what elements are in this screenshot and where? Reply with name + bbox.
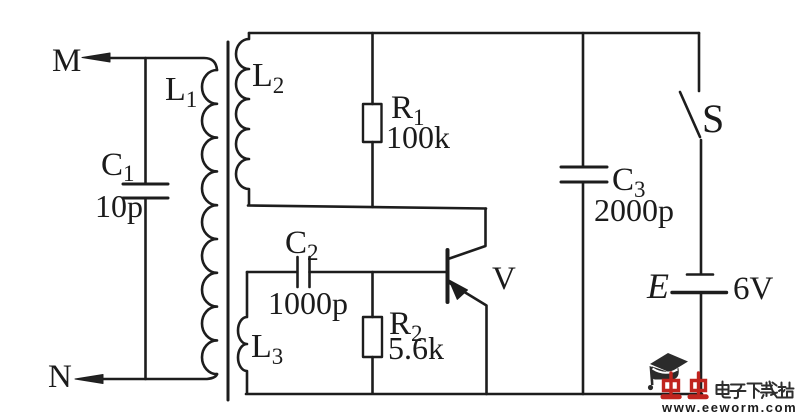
svg-text:2000p: 2000p bbox=[594, 192, 674, 228]
watermark text dianzi xiazaizhan bbox=[717, 382, 794, 399]
wire M lead bbox=[95, 58, 217, 70]
capacitor C2 left wire bbox=[247, 271, 297, 274]
transistor V base bar bbox=[446, 250, 450, 302]
watermark graduation cap bbox=[648, 353, 688, 390]
capacitor C1 bottom wire bbox=[144, 198, 147, 379]
wire N lead bbox=[88, 374, 217, 379]
svg-text:www.eeworm.com: www.eeworm.com bbox=[661, 400, 797, 413]
battery E short plate bbox=[687, 273, 713, 276]
inductor L3 bbox=[238, 272, 247, 393]
resistor R1 bottom wire bbox=[371, 142, 374, 207]
capacitor C2 plates bbox=[298, 257, 310, 287]
resistor R1 body bbox=[363, 104, 382, 142]
capacitor C3 plates bbox=[561, 167, 607, 182]
svg-text:100k: 100k bbox=[386, 119, 450, 155]
capacitor C1 plates bbox=[123, 184, 168, 198]
wire bottom rail bbox=[246, 393, 702, 396]
node M arrowhead bbox=[82, 53, 110, 62]
svg-text:5.6k: 5.6k bbox=[388, 330, 444, 366]
node N arrowhead bbox=[75, 375, 103, 384]
resistor R2 body bbox=[363, 317, 382, 357]
wire emitter lead bbox=[448, 282, 487, 394]
capacitor C3 top wire bbox=[582, 33, 585, 166]
svg-text:N: N bbox=[48, 359, 72, 395]
inductor L2 bbox=[236, 33, 249, 205]
watermark red text chong chong bbox=[663, 373, 707, 397]
switch S bottom wire bbox=[700, 140, 703, 273]
wire top rail bbox=[249, 32, 699, 35]
battery E bottom wire bbox=[700, 293, 703, 396]
capacitor C3 bottom wire bbox=[582, 182, 585, 394]
svg-text:E: E bbox=[646, 266, 669, 306]
svg-text:L1: L1 bbox=[165, 71, 197, 112]
wire collector lead bbox=[448, 209, 486, 260]
svg-text:L3: L3 bbox=[251, 328, 283, 369]
wire mid line from L2 to collector bbox=[248, 206, 486, 209]
svg-text:C2: C2 bbox=[285, 225, 319, 265]
svg-text:L2: L2 bbox=[252, 57, 284, 98]
resistor R2 top wire bbox=[371, 272, 374, 317]
svg-text:M: M bbox=[52, 43, 81, 79]
svg-text:C1: C1 bbox=[101, 147, 135, 186]
capacitor C1 top wire bbox=[144, 58, 147, 184]
svg-text:1000p: 1000p bbox=[268, 285, 348, 321]
svg-text:V: V bbox=[492, 261, 516, 297]
inductor L1 bbox=[202, 70, 217, 374]
svg-text:10p: 10p bbox=[95, 188, 143, 224]
switch S blade bbox=[680, 92, 700, 137]
battery E long plate bbox=[672, 291, 727, 294]
transistor V emitter arrowhead bbox=[449, 280, 468, 299]
svg-text:S: S bbox=[702, 96, 724, 141]
transformer core bbox=[227, 42, 230, 400]
resistor R1 top wire bbox=[371, 33, 374, 104]
switch S top wire bbox=[698, 33, 701, 91]
resistor R2 bottom wire bbox=[371, 357, 374, 393]
wire base lead bbox=[310, 271, 447, 274]
svg-text:6V: 6V bbox=[733, 271, 774, 307]
